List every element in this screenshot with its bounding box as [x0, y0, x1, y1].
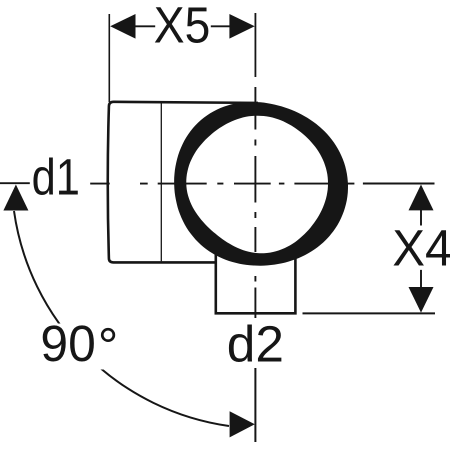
X4 top reference line [363, 183, 435, 185]
ring (front socket collar) [174, 102, 348, 266]
X4 up arrow [409, 185, 434, 211]
X4 bottom reference line [303, 312, 436, 314]
svg-text:90: 90 [40, 315, 95, 372]
90 degree arc up arrow [3, 185, 28, 211]
X5 left extension line [108, 14, 110, 102]
vertical centerline dash-dot [254, 87, 256, 318]
vertical centerline solid top (X5 ext) [254, 13, 256, 77]
socket body outline (left inlet d1) [108, 102, 258, 263]
X4 connector lines [420, 210, 422, 288]
X5 dimension line [134, 25, 231, 27]
white gap behind 90 label [36, 324, 124, 370]
svg-text:X4: X4 [392, 219, 450, 276]
outlet stub d2 [216, 253, 296, 314]
vertical centerline solid bottom [254, 368, 256, 442]
X4 down arrow [409, 287, 434, 313]
90 degree arc [14, 211, 229, 426]
d1 axis left stub [0, 182, 30, 184]
horizontal centerline dash-dot [90, 183, 354, 185]
X5 right extension line [254, 13, 256, 77]
svg-text:X5: X5 [154, 0, 211, 53]
90 degree arc right arrow [230, 411, 255, 437]
X5 left arrow [110, 14, 135, 39]
svg-text:d1: d1 [32, 149, 80, 206]
X5 right arrow [229, 14, 254, 39]
socket depth line [160, 103, 162, 262]
svg-text:°: ° [98, 318, 118, 375]
svg-text:d2: d2 [227, 316, 284, 373]
